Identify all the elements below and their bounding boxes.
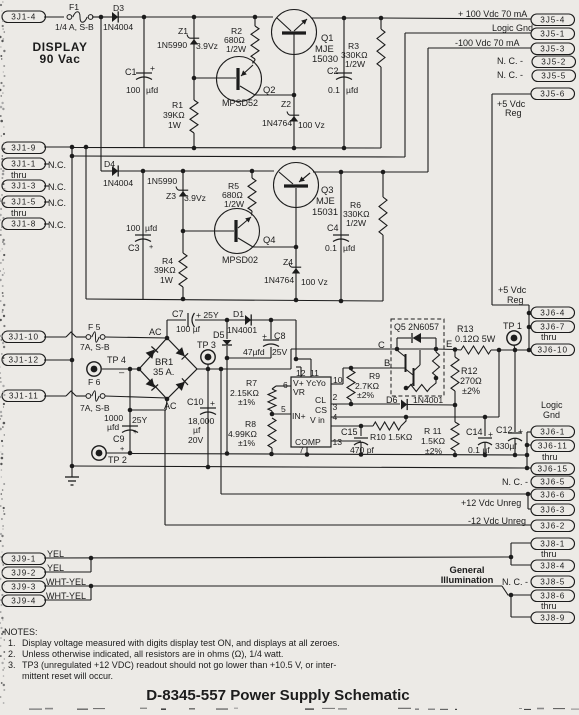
- svg-text:Q1: Q1: [321, 32, 334, 43]
- bridge rectifier BR1 35A: [139, 327, 197, 411]
- svg-text:+5 Vdc: +5 Vdc: [498, 285, 527, 295]
- node C1 top: [142, 15, 147, 20]
- svg-text:D4: D4: [104, 159, 115, 169]
- svg-text:±2%: ±2%: [425, 446, 442, 456]
- wire: [344, 17, 381, 19]
- connector 3J9-2: [2, 563, 64, 579]
- test point TP2: [92, 446, 127, 465]
- svg-text:1N4764: 1N4764: [264, 275, 294, 285]
- svg-text:E: E: [446, 338, 452, 349]
- svg-text:N. C. -: N. C. -: [497, 56, 523, 66]
- svg-text:1.: 1.: [8, 638, 16, 648]
- svg-text:100: 100: [126, 223, 141, 233]
- connector 3J6-10: [529, 344, 575, 356]
- connector 3J5-2: [497, 56, 576, 68]
- wire: [313, 171, 341, 173]
- svg-text:F1: F1: [69, 2, 79, 12]
- node C2 top: [342, 16, 347, 21]
- diode D5: [213, 330, 232, 345]
- svg-text:R9: R9: [369, 371, 380, 381]
- capacitor C3 100ufd: [126, 223, 157, 253]
- svg-text:1N4764: 1N4764: [262, 118, 292, 128]
- svg-text:µf: µf: [193, 425, 201, 435]
- svg-text:3J1-4: 3J1-4: [11, 13, 36, 22]
- transistor Q4 MPSD02: [215, 209, 276, 266]
- svg-text:C8: C8: [274, 331, 286, 341]
- svg-text:C15: C15: [341, 427, 358, 437]
- connector 3J5-1: [531, 28, 575, 40]
- wire: [102, 366, 139, 377]
- svg-text:TP3 (unregulated +12 VDC) read: TP3 (unregulated +12 VDC) readout should…: [22, 660, 336, 670]
- svg-text:0.1: 0.1: [328, 85, 340, 95]
- node Z3 top: [181, 169, 186, 174]
- svg-text:F 6: F 6: [88, 377, 101, 387]
- connector 3J1-8: [2, 218, 66, 230]
- resistor R12 270ohm 2%: [451, 350, 482, 406]
- svg-text:N. C. -: N. C. -: [497, 70, 523, 80]
- svg-text:C2: C2: [327, 66, 339, 76]
- svg-text:0.1 µf: 0.1 µf: [468, 445, 490, 455]
- connector 3J9-3: [2, 577, 86, 593]
- svg-text:3J6-4: 3J6-4: [540, 309, 565, 318]
- svg-text:0.1: 0.1: [325, 243, 337, 253]
- diode D1 1N4001: [227, 309, 257, 335]
- resistor R1 39Kohm 1W: [163, 78, 198, 148]
- svg-text:µfd: µfd: [107, 422, 119, 432]
- wire left vertical: [71, 147, 73, 466]
- svg-text:7: 7: [299, 445, 304, 455]
- svg-text:3J5-2: 3J5-2: [541, 58, 566, 67]
- svg-text:3J5-1: 3J5-1: [540, 30, 565, 39]
- svg-text:1/2W: 1/2W: [345, 59, 366, 69]
- wire R5 to Q4: [251, 211, 253, 216]
- connector 3J8-5: [502, 576, 575, 588]
- svg-text:3J1-5: 3J1-5: [11, 198, 36, 207]
- connector 3J6-11: [531, 440, 575, 452]
- label pin6: [283, 380, 288, 390]
- connector 3J1-9: [2, 142, 72, 154]
- connector 3J6-1: [531, 426, 575, 438]
- svg-text:35 A.: 35 A.: [153, 366, 174, 377]
- wire: [293, 34, 295, 148]
- connector 3J1-12: [2, 354, 72, 366]
- wire: [343, 18, 345, 148]
- svg-text:1W: 1W: [168, 120, 182, 130]
- node R9 bottom: [349, 402, 354, 407]
- zener Z3 1N5990 3.9Vz: [147, 176, 206, 203]
- wire top-half bottom rail: [72, 147, 381, 150]
- wire pin7: [306, 447, 308, 455]
- svg-text:1/2W: 1/2W: [224, 199, 245, 209]
- svg-text:thru: thru: [11, 208, 27, 218]
- svg-text:18,000: 18,000: [188, 416, 215, 426]
- capacitor C7 100uf 25V: [172, 309, 219, 334]
- svg-text:R12: R12: [461, 366, 478, 376]
- svg-text:C10: C10: [187, 397, 204, 407]
- svg-text:+: +: [149, 242, 153, 251]
- node R3 top: [379, 16, 384, 21]
- wire: [255, 16, 273, 18]
- node C8 top: [269, 318, 274, 323]
- svg-text:3J8-5: 3J8-5: [540, 578, 565, 587]
- svg-text:Illumination: Illumination: [441, 574, 494, 585]
- svg-text:3J8-6: 3J8-6: [540, 592, 565, 601]
- fuse F5: [80, 322, 110, 352]
- connector 3J6-5: [502, 476, 575, 488]
- wire: [105, 337, 167, 338]
- wire node C: [291, 339, 436, 369]
- node Z2 bottom: [292, 146, 297, 151]
- svg-text:3.: 3.: [8, 660, 16, 670]
- svg-text:2: 2: [333, 392, 338, 402]
- svg-text:Z3: Z3: [166, 191, 176, 201]
- label thru: [542, 452, 558, 462]
- wire: [143, 170, 183, 172]
- node C10 bottom: [206, 465, 211, 470]
- wire: [227, 319, 296, 321]
- svg-text:Reg: Reg: [505, 108, 522, 118]
- svg-text:39KΩ: 39KΩ: [154, 265, 176, 275]
- node Z3-R4 junction: [181, 229, 186, 234]
- svg-text:5: 5: [281, 404, 286, 414]
- resistor R7 2.15Kohm 1%: [230, 378, 291, 414]
- svg-text:TP 1: TP 1: [503, 321, 522, 331]
- svg-text:R1: R1: [172, 100, 183, 110]
- test point TP3: [197, 340, 216, 364]
- transistor Q3 MJE 15031: [274, 163, 339, 218]
- wire AC to -12V: [130, 397, 531, 525]
- connector 3J8-4: [531, 560, 575, 572]
- svg-text:1N5990: 1N5990: [157, 40, 187, 50]
- svg-text:39KΩ: 39KΩ: [163, 110, 185, 120]
- wire CS: [331, 350, 499, 417]
- wire: [195, 319, 227, 321]
- node 3J8 bottom bracket: [509, 593, 514, 598]
- svg-text:0.12Ω 5W: 0.12Ω 5W: [455, 334, 496, 344]
- node CS-C14: [483, 415, 488, 420]
- svg-text:3J5-6: 3J5-6: [540, 90, 565, 99]
- svg-text:AC: AC: [149, 327, 162, 337]
- svg-text:Q4: Q4: [263, 234, 276, 245]
- wire +12V unreg: [221, 369, 528, 494]
- test point TP1: [503, 321, 522, 350]
- label thru: [541, 332, 557, 342]
- capacitor C15 470pf: [341, 426, 375, 455]
- resistor R13 0.12ohm 5W: [455, 324, 529, 354]
- svg-text:thru: thru: [541, 549, 557, 559]
- wire display common drop: [85, 147, 87, 299]
- connector 3J5-3: [531, 43, 575, 55]
- node R2 top: [253, 15, 258, 20]
- svg-text:NOTES:: NOTES:: [4, 627, 38, 637]
- node C4 top: [339, 170, 344, 175]
- svg-text:µfd: µfd: [343, 243, 355, 253]
- node: [269, 452, 274, 457]
- ground: [65, 466, 79, 485]
- svg-text:TP 2: TP 2: [108, 455, 127, 465]
- svg-text:Logic: Logic: [541, 400, 563, 410]
- svg-text:C9: C9: [113, 434, 125, 444]
- svg-text:3J1-10: 3J1-10: [9, 333, 39, 342]
- fuse F1: [55, 2, 94, 32]
- svg-text:100 Vz: 100 Vz: [301, 277, 328, 287]
- svg-text:±2%: ±2%: [357, 390, 374, 400]
- svg-text:V in: V in: [310, 415, 325, 425]
- svg-text:100 Vz: 100 Vz: [298, 120, 325, 130]
- svg-text:3J6-1: 3J6-1: [540, 428, 565, 437]
- wire logic gnd: [405, 23, 533, 157]
- wire Q2 collector: [255, 94, 294, 96]
- connector 3J8-6: [531, 590, 575, 602]
- label General Illumination: [441, 564, 494, 585]
- svg-text:N. C. -: N. C. -: [502, 477, 528, 487]
- svg-text:3J1-9: 3J1-9: [11, 144, 36, 153]
- connector 3J1-1: [2, 158, 66, 170]
- diode D4 1N4004: [103, 159, 133, 188]
- svg-text:R8: R8: [245, 419, 256, 429]
- svg-text:N.C.: N.C.: [48, 182, 66, 192]
- svg-text:C4: C4: [327, 223, 339, 233]
- connector 3J6-3: [531, 504, 575, 516]
- connector 3J1-4: [2, 11, 64, 23]
- svg-text:3J1-12: 3J1-12: [9, 356, 39, 365]
- wire 3J8-6/9 bracket: [511, 595, 531, 617]
- svg-text:D3: D3: [113, 3, 124, 13]
- wire Q4 collector: [253, 246, 296, 248]
- wire +100 Vdc: [381, 9, 531, 19]
- node R12 top: [453, 347, 458, 352]
- node TP1 stem: [513, 348, 518, 353]
- node R7-R8: [270, 412, 275, 417]
- svg-text:3J9-3: 3J9-3: [11, 583, 36, 592]
- capacitor C4 0.1ufd: [325, 223, 355, 253]
- wire upper gnd rail: [106, 453, 527, 455]
- svg-text:thru: thru: [11, 170, 27, 180]
- node 3J1-9 branch A: [70, 145, 75, 150]
- fuse F6: [80, 377, 110, 413]
- resistor R4 39Kohm 1W: [154, 231, 187, 299]
- svg-text:R13: R13: [457, 324, 474, 334]
- svg-text:VR: VR: [293, 387, 305, 397]
- svg-text:TP 3: TP 3: [197, 340, 216, 350]
- connector 3J9-1: [2, 549, 64, 565]
- node C9 bottom: [128, 451, 133, 456]
- svg-text:N.C.: N.C.: [48, 160, 66, 170]
- node 3J8 top bracket: [509, 555, 514, 560]
- svg-text:D-8345-557 Power Supply Schema: D-8345-557 Power Supply Schematic: [146, 687, 409, 704]
- svg-text:3J9-1: 3J9-1: [11, 555, 36, 564]
- wire node B: [331, 357, 406, 384]
- capacitor C8 47ufd 25V: [243, 331, 288, 357]
- op-amp U1 regulator: [291, 368, 343, 455]
- wire: [270, 320, 272, 339]
- svg-text:+: +: [210, 398, 215, 408]
- resistor R8 4.99Kohm 1%: [228, 418, 276, 454]
- connector 3J1-10: [2, 331, 86, 343]
- resistor R3 330Kohm 1/2W: [341, 18, 385, 148]
- svg-text:N.C.: N.C.: [48, 220, 66, 230]
- svg-text:IN+: IN+: [292, 411, 306, 421]
- svg-text:CL: CL: [315, 395, 326, 405]
- node D5 bottom: [225, 356, 230, 361]
- svg-text:330µf: 330µf: [495, 441, 517, 451]
- connector 3J6-15: [531, 463, 575, 475]
- node C10 top: [206, 367, 211, 372]
- svg-text:3J5-5: 3J5-5: [541, 72, 566, 81]
- label thru: [541, 549, 557, 559]
- svg-text:100: 100: [126, 85, 141, 95]
- node F1-D3 junction: [99, 15, 104, 20]
- node: [305, 452, 310, 457]
- svg-text:3J6-15: 3J6-15: [538, 465, 568, 474]
- svg-text:+ 100 Vdc 70 mA: + 100 Vdc 70 mA: [458, 9, 527, 19]
- svg-text:-12 Vdc Unreg: -12 Vdc Unreg: [468, 516, 526, 526]
- wire: [44, 556, 93, 572]
- wire: [226, 320, 228, 339]
- wire F1 junction drop: [101, 17, 112, 171]
- node: [525, 453, 530, 458]
- node CS-R10: [404, 415, 409, 420]
- svg-text:Display voltage measured with: Display voltage measured with digits dis…: [22, 638, 340, 648]
- node Z4 top: [294, 245, 299, 250]
- wire: [165, 320, 186, 340]
- node R6 top: [381, 170, 386, 175]
- svg-text:Unless otherwise indicated, al: Unless otherwise indicated, all resistor…: [22, 649, 283, 659]
- wire R2 to Q2: [253, 59, 255, 64]
- svg-text:N.C.: N.C.: [48, 198, 66, 208]
- svg-text:C14: C14: [466, 427, 483, 437]
- svg-text:1N4001: 1N4001: [227, 325, 257, 335]
- label thru: [11, 170, 27, 180]
- connector 3J1-5: [2, 196, 66, 208]
- svg-text:F 5: F 5: [88, 322, 101, 332]
- node 3J1-12 junction: [70, 358, 75, 363]
- wire: [227, 347, 271, 358]
- capacitor C2 0.1ufd: [327, 66, 358, 95]
- svg-text:+12 Vdc Unreg: +12 Vdc Unreg: [461, 498, 521, 508]
- node D5 gnd: [225, 451, 230, 456]
- connector 3J1-11: [2, 390, 86, 402]
- wire: [341, 171, 383, 173]
- wire: [144, 16, 194, 18]
- wire: [194, 16, 255, 18]
- wire: [182, 171, 184, 231]
- title: [146, 687, 409, 704]
- wire COMP: [331, 440, 361, 442]
- diode D3 1N4004: [103, 3, 133, 32]
- wire: [183, 230, 215, 232]
- zener Z4 1N4764 100Vz: [264, 257, 328, 287]
- svg-text:3J8-1: 3J8-1: [540, 540, 565, 549]
- svg-text:D5: D5: [213, 330, 225, 340]
- svg-text:Gnd: Gnd: [543, 410, 560, 420]
- wire: [226, 346, 228, 453]
- svg-text:Q2: Q2: [263, 84, 276, 95]
- connector 3J6-2: [468, 516, 575, 532]
- node Z1-R1 junction: [192, 76, 197, 81]
- capacitor C1 100ufd: [125, 63, 158, 95]
- node C3 top: [141, 169, 146, 174]
- svg-text:MPSD52: MPSD52: [222, 98, 258, 108]
- node R5 top: [250, 169, 255, 174]
- svg-text:90 Vac: 90 Vac: [40, 52, 81, 66]
- node R1 bottom: [192, 146, 197, 151]
- label thru: [11, 208, 27, 218]
- wire V+ feed: [294, 320, 311, 377]
- svg-text:±1%: ±1%: [238, 438, 255, 448]
- node R4 bottom: [181, 297, 186, 302]
- node 3J1-9 branch B: [84, 145, 89, 150]
- zener Z1 1N5990 3.9Vz: [157, 26, 218, 51]
- wire: [129, 369, 131, 452]
- notes text: [4, 627, 340, 681]
- svg-text:thru: thru: [541, 601, 557, 611]
- svg-text:Reg: Reg: [507, 295, 524, 305]
- svg-text:µfd: µfd: [146, 85, 158, 95]
- wire ground rail: [72, 466, 527, 468]
- resistor R2 680ohm 1/2W: [224, 17, 259, 59]
- transistor Q1 MJE 15030: [272, 10, 339, 65]
- svg-text:MPSD02: MPSD02: [222, 255, 258, 265]
- svg-text:C1: C1: [125, 67, 137, 77]
- node D5 top: [225, 318, 230, 323]
- test point TP4: [87, 355, 126, 376]
- wire Vin: [331, 425, 373, 427]
- node gnd left: [70, 464, 75, 469]
- svg-text:+: +: [488, 429, 493, 439]
- node CS riser: [497, 348, 502, 353]
- svg-text:Z1: Z1: [178, 26, 188, 36]
- wire 3J8-1/4 bracket: [511, 543, 531, 565]
- wire raw +12V: [197, 368, 291, 370]
- node C15 top: [359, 424, 364, 429]
- wire +5V rail: [491, 94, 493, 305]
- node: [513, 453, 518, 458]
- svg-text:3J6-2: 3J6-2: [540, 522, 565, 531]
- svg-text:3J1-3: 3J1-3: [11, 182, 36, 191]
- svg-text:15030: 15030: [312, 53, 338, 64]
- svg-text:100 µf: 100 µf: [176, 324, 201, 334]
- wire: [340, 172, 342, 301]
- label pin5: [281, 404, 286, 414]
- label Logic Gnd: [541, 400, 563, 420]
- svg-text:3J1-8: 3J1-8: [11, 220, 36, 229]
- svg-text:15031: 15031: [312, 206, 338, 217]
- svg-text:13: 13: [333, 437, 343, 447]
- svg-text:270Ω: 270Ω: [460, 376, 482, 386]
- svg-text:1N5990: 1N5990: [147, 176, 177, 186]
- svg-text:7A, S-B: 7A, S-B: [80, 342, 110, 352]
- svg-text:±1%: ±1%: [238, 397, 255, 407]
- wire logic tie: [70, 147, 405, 158]
- svg-text:3J9-2: 3J9-2: [11, 569, 36, 578]
- node 3J6-7: [527, 325, 532, 330]
- node +12V bracket: [526, 492, 531, 497]
- svg-text:3J6-3: 3J6-3: [540, 506, 565, 515]
- svg-text:6: 6: [283, 380, 288, 390]
- svg-text:Q5 2N6057: Q5 2N6057: [394, 322, 439, 332]
- wire: [143, 17, 145, 148]
- svg-text:25V: 25V: [272, 347, 288, 357]
- node R9 top: [349, 366, 354, 371]
- svg-text:+: +: [120, 444, 124, 453]
- svg-text:–: –: [119, 366, 125, 377]
- node 3J6-4: [527, 311, 532, 316]
- svg-text:20V: 20V: [188, 435, 204, 445]
- svg-text:7A, S-B: 7A, S-B: [80, 403, 110, 413]
- wire: [252, 170, 274, 172]
- wire: [118, 16, 144, 18]
